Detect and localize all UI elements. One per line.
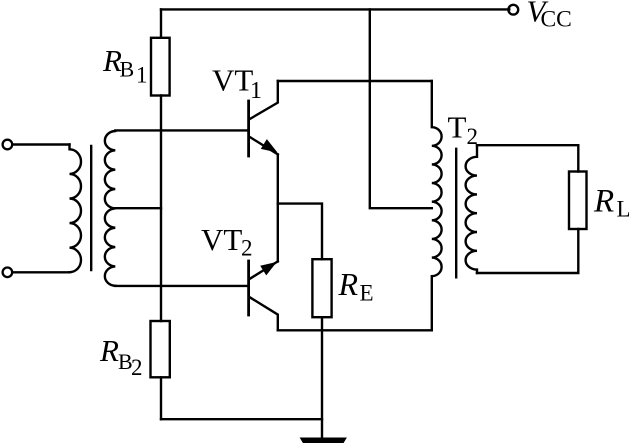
label RE	[338, 266, 374, 306]
wire: input top lead	[12, 143, 69, 145]
transformer T2 core	[455, 149, 457, 277]
transistor VT1	[249, 81, 278, 156]
label VT2	[201, 222, 253, 261]
svg-text:2: 2	[131, 355, 143, 380]
terminal input top	[3, 140, 13, 150]
transformer T1 primary winding	[70, 145, 82, 273]
label VCC	[527, 0, 572, 33]
svg-text:B: B	[120, 57, 135, 82]
wire: VCC top rail	[161, 8, 509, 10]
wire: RB2 bottom lead	[160, 377, 162, 419]
svg-text:1: 1	[250, 78, 262, 104]
svg-text:VT: VT	[201, 222, 242, 257]
resistor RE	[312, 259, 331, 317]
label RB2	[99, 333, 143, 380]
wire: T1 secondary bottom to VT2 base	[115, 285, 248, 287]
terminal input bottom	[3, 268, 13, 278]
wire: T2 secondary top lead to RL	[477, 145, 578, 171]
wire: bias chain vertical (RB1 bottom to RB2 top)	[160, 96, 162, 322]
transformer T2 secondary winding	[466, 145, 477, 273]
ground	[301, 438, 347, 443]
wire: RE bottom lead to ground	[321, 317, 323, 438]
terminal VCC	[508, 5, 518, 15]
wire: T1 secondary center tap to bias node	[115, 207, 161, 209]
label RB1	[102, 43, 148, 88]
wire: RL bottom lead	[477, 229, 578, 273]
svg-text:2: 2	[467, 124, 479, 149]
wire: VT1 collector to T2 primary top	[278, 80, 432, 82]
svg-text:1: 1	[136, 63, 148, 88]
svg-text:R: R	[338, 266, 359, 302]
svg-text:CC: CC	[541, 7, 572, 33]
wire: emitter tap toward RE	[278, 204, 322, 260]
svg-text:R: R	[593, 184, 614, 220]
label RL	[593, 184, 629, 222]
resistor RB2	[151, 321, 170, 377]
svg-text:2: 2	[241, 236, 253, 261]
svg-text:T: T	[448, 109, 467, 144]
wire: input bottom lead	[12, 271, 69, 273]
svg-text:VT: VT	[212, 63, 253, 98]
transformer T2 primary winding	[432, 81, 442, 330]
wire: RB1 top lead	[160, 9, 162, 37]
wire: VT2 collector to T2 primary bottom	[278, 329, 432, 331]
wire: VCC feed vertical to T2 center tap	[370, 9, 432, 208]
resistor RB1	[151, 38, 170, 96]
svg-text:L: L	[617, 197, 629, 222]
transistor VT2	[249, 261, 278, 330]
label T2 (transformer)	[448, 109, 479, 149]
wire: joined emitters vertical	[277, 154, 279, 261]
wire: T1 secondary top to VT1 base	[115, 129, 248, 131]
transformer T1 core	[90, 146, 92, 270]
resistor RL	[569, 172, 587, 230]
svg-text:R: R	[99, 333, 119, 368]
wire: bottom rail to ground node	[161, 418, 322, 420]
svg-text:E: E	[360, 281, 374, 306]
transformer T1 secondary winding	[105, 131, 115, 286]
label VT1	[212, 63, 262, 105]
